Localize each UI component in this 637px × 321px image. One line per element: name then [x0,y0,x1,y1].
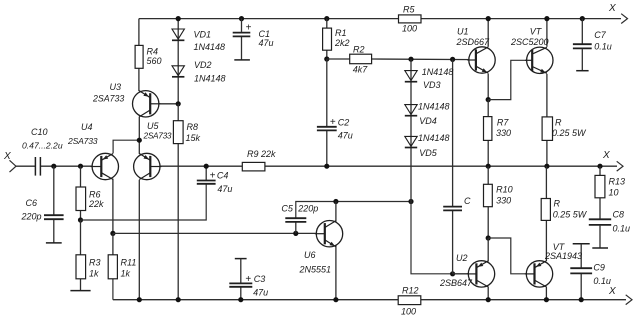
node C2 output rail junction [324,164,329,169]
node C top junction [450,57,455,62]
wire VT2 collector to rail [545,287,547,300]
svg-text:2SC5200: 2SC5200 [510,37,549,47]
node R output rail junction [544,164,549,169]
wire C9 top [580,244,582,268]
node input X chevron [3,151,16,172]
wire R11 top [112,233,114,254]
svg-text:10: 10 [609,188,619,198]
svg-text:0.1u: 0.1u [613,224,631,234]
node R6 R3 feedback junction [78,217,83,222]
node C bottom U2 base junction [450,271,455,276]
wire U6 collector up [335,202,337,222]
wire U2 emitter up [487,238,489,262]
svg-text:C2: C2 [338,117,350,127]
svg-text:47u: 47u [259,38,274,48]
resistor R6 [76,187,104,211]
wire C8 bottom [599,226,601,248]
svg-text:R1: R1 [335,28,347,38]
wire R10 to VT2 base [488,238,534,274]
svg-text:X: X [608,286,616,297]
wire U6 base line [113,232,318,234]
svg-text:2SA733: 2SA733 [67,136,98,146]
wire U3 base to bias node [150,103,178,105]
wire C1 bottom [241,37,243,60]
svg-text:U1: U1 [457,27,469,37]
svg-text:1N4148: 1N4148 [418,133,450,143]
svg-text:VD4: VD4 [419,116,437,126]
svg-text:U4: U4 [81,122,93,132]
node VD3 top junction [408,57,413,62]
ground C9 termination bar [573,243,590,245]
svg-text:2SB647: 2SB647 [439,278,473,288]
svg-text:C4: C4 [217,171,229,181]
svg-text:VD5: VD5 [419,148,438,158]
wire R1 top [326,19,328,29]
svg-text:R4: R4 [147,47,159,57]
wire R3 top [80,220,82,255]
svg-text:47u: 47u [253,288,268,298]
resistor R2 [350,45,372,75]
svg-text:R11: R11 [121,258,137,268]
svg-text:22k: 22k [88,199,104,209]
svg-text:C3: C3 [254,274,266,284]
svg-text:R: R [555,118,562,128]
svg-text:100: 100 [402,24,417,34]
svg-text:R: R [554,199,561,209]
node diff emitter junction [137,138,142,143]
svg-text:C5: C5 [281,204,293,214]
svg-text:560: 560 [147,56,162,66]
resistor R 0.25 5W lower [541,199,588,221]
svg-text:47u: 47u [217,184,232,194]
node R10 U2 emitter junction [486,235,491,240]
wire lower R bottom to VT2 emitter [545,220,547,261]
wire R4 top [138,19,140,46]
ground C3 termination bar [235,258,247,260]
transistor U4 2SA733 [67,122,119,180]
wire C4 top [205,166,207,180]
wire C2 bottom [326,131,328,166]
wire C9 bottom [580,274,582,300]
node U6 emitter rail junction [333,297,338,302]
svg-text:1N4148: 1N4148 [194,74,226,84]
resistor R12 [398,286,421,317]
resistor R10 [484,184,513,206]
node bias junction U3 base [176,101,181,106]
node VT collector rail junction [544,16,549,21]
capacitor C [443,196,471,210]
svg-text:0.1u: 0.1u [593,276,611,286]
wire C1 top [241,19,243,32]
svg-text:R9 22k: R9 22k [247,149,276,159]
wire R13 top [599,166,601,175]
capacitor C2 polarized [317,117,353,141]
wire U1 emitter to VT base [488,60,532,99]
svg-text:1k: 1k [121,269,131,279]
node top rail output arrow [608,3,628,24]
wire U5 collector to bottom rail [138,180,140,300]
wire R8 bottom to bottom rail [177,144,179,300]
transistor VT 2SA1943 [525,242,582,287]
wire input to C10 [16,165,35,167]
wire U6 emitter to rail [335,246,337,300]
resistor R 0.25 5W upper [542,117,587,140]
resistor R1 [323,28,350,50]
node C4 output rail junction [204,164,209,169]
svg-text:4k7: 4k7 [353,65,369,75]
node C9 rail junction [579,297,584,302]
wire R10 top [487,166,489,184]
wire C3 top [240,259,242,283]
node R8 bottom rail junction [176,297,181,302]
node C6 junction [51,164,56,169]
ground C8 termination bar [592,247,608,249]
svg-text:2N5551: 2N5551 [299,265,332,275]
wire R7 bottom [487,140,489,166]
node VD5 bottom junction [408,199,413,204]
capacitor C5 [281,204,318,222]
wire VD3 VD4 VD5 chain [410,59,412,201]
svg-text:C6: C6 [26,198,38,208]
wire R11 bottom to rail [112,279,114,300]
diode VD1 1N4148 [172,29,225,52]
transistor U6 2N5551 [299,221,343,275]
wire bottom supply rail [113,299,626,301]
wire VD5 bottom to U2 base corner [411,202,453,274]
svg-text:1N4148: 1N4148 [422,67,454,77]
diode VD2 1N4148 [172,60,226,84]
svg-text:15k: 15k [186,133,201,143]
svg-text:R3: R3 [89,258,101,268]
svg-text:2SA733: 2SA733 [92,94,124,104]
wire C2 top [326,59,328,126]
node U6 collector junction [333,199,338,204]
resistor R7 [484,117,512,141]
svg-text:R5: R5 [403,5,415,15]
svg-text:1k: 1k [89,269,99,279]
transistor U5 2SA733 [134,121,172,180]
node U4 collector R11 junction [110,231,115,236]
wire VT emitter down to R [546,74,548,117]
wire R bottom to output rail [546,140,548,166]
ground R3 termination bar [70,290,90,292]
svg-text:+: + [246,23,252,34]
svg-text:1N4148: 1N4148 [418,102,450,112]
svg-text:R10: R10 [496,185,513,195]
svg-text:220p: 220p [297,204,318,214]
wire R10 bottom [487,207,489,238]
node U1 collector rail junction [486,16,491,21]
ground C7 termination bar [576,70,588,72]
svg-text:C8: C8 [613,210,625,220]
wire R4 bottom to U3 emitter [138,68,140,91]
node R7 output rail junction [486,164,491,169]
wire R6 bottom [80,211,82,221]
svg-text:220p: 220p [21,212,42,222]
svg-text:X: X [3,151,11,162]
svg-text:R8: R8 [187,122,199,132]
wire U3 collector to diff pair [138,117,140,154]
wire VT collector to rail [546,19,548,47]
svg-text:0.1u: 0.1u [594,42,612,52]
svg-text:+: + [210,171,216,182]
svg-text:1N4148: 1N4148 [194,42,226,52]
transistor VT 2SC5200 [510,27,553,74]
svg-text:C9: C9 [593,263,605,273]
wire lower R top [545,166,547,198]
svg-text:0.25 5W: 0.25 5W [552,128,587,138]
svg-text:0.47...2.2u: 0.47...2.2u [22,141,63,151]
capacitor C10 [22,127,63,176]
wire R3 bottom [80,279,82,291]
capacitor C8 [589,210,630,234]
transistor U1 2SD667 [456,27,496,74]
svg-text:X: X [602,150,610,161]
wire C6 bottom [53,220,55,243]
wire R6 top [80,166,82,187]
wire C7 top [581,19,583,44]
node R6 top junction [78,164,83,169]
node U1 emitter R7 junction [486,97,491,102]
wire top supply rail [139,18,621,20]
resistor R8 [173,121,200,144]
capacitor C3 polarized [229,274,268,298]
wire output rail [150,165,617,167]
node output arrow X [602,150,623,171]
ground C1 termination bar [234,59,250,61]
wire C7 bottom [581,49,583,71]
diode VD5 1N4148 [405,133,450,158]
wire C5 top corner [296,202,411,218]
svg-text:C: C [464,196,471,206]
wire bias to R8 [177,104,179,121]
svg-text:R7: R7 [497,118,509,128]
wire bias line R2 left [327,58,350,60]
node R1 R2 C2 junction [324,56,329,61]
node C3 rail junction [238,297,243,302]
node R13 top junction [597,164,602,169]
svg-text:R13: R13 [609,177,626,187]
resistor R11 [108,255,136,279]
wire U1 collector to rail [487,19,489,47]
node bottom rail output arrow [608,286,632,305]
transistor U2 2SB647 [439,253,495,288]
svg-text:U6: U6 [304,250,316,260]
svg-text:R2: R2 [353,45,365,55]
ground C6 termination bar [46,242,62,244]
svg-text:VD1: VD1 [194,30,212,40]
svg-text:2k2: 2k2 [334,38,350,48]
svg-text:330: 330 [496,196,511,206]
svg-text:R12: R12 [402,286,419,296]
svg-text:X: X [608,3,616,14]
svg-text:C7: C7 [594,30,606,40]
capacitor C6 [21,198,64,222]
wire R7 top [487,100,489,117]
svg-text:R6: R6 [89,190,101,200]
svg-text:2SA1943: 2SA1943 [544,251,582,261]
node C5 bottom junction [293,231,298,236]
svg-text:VD3: VD3 [423,80,441,90]
node VT2 collector rail junction [544,297,549,302]
svg-text:VD2: VD2 [194,60,212,70]
wire diff pair emitter tee [113,140,139,153]
wire C6 top [53,166,55,215]
wire R13 to C8 [599,198,601,219]
node U5 collector rail junction [137,297,142,302]
wire VD1 VD2 chain [177,19,179,104]
resistor R13 [595,175,625,197]
svg-text:+: + [330,117,336,128]
wire C bottom [452,211,454,274]
wire C3 bottom [240,287,242,300]
wire C5 bottom [295,222,297,233]
svg-text:100: 100 [401,307,416,317]
svg-text:47u: 47u [338,131,353,141]
svg-text:C10: C10 [31,127,48,137]
svg-text:+: + [245,274,251,285]
svg-text:2SD667: 2SD667 [456,37,491,47]
diode VD4 1N4148 [405,102,450,127]
svg-text:330: 330 [496,128,511,138]
svg-text:U5: U5 [147,121,159,131]
resistor R4 [135,45,161,68]
wire feedback C4 line [81,184,207,220]
svg-text:U2: U2 [456,253,468,263]
transistor U3 2SA733 [92,82,160,117]
wire C top [452,59,454,206]
diode VD3 1N4148 [405,67,454,90]
svg-text:2SA733: 2SA733 [143,131,172,141]
wire R1 bottom to node [326,50,328,59]
resistor R3 [76,255,101,279]
node C1 top junction [239,16,244,21]
capacitor C9 [570,263,611,287]
wire U1 emitter down [487,73,489,99]
capacitor C1 polarized [233,23,274,49]
node U2 collector rail junction [486,297,491,302]
capacitor C4 polarized [197,171,233,195]
svg-text:0.25 5W: 0.25 5W [553,210,588,220]
node C7 top junction [580,16,585,21]
wire bias line R2 right to U1 base [372,58,476,61]
svg-text:VT: VT [530,27,543,37]
wire U4 collector down [112,179,114,234]
wire U2 base [453,273,477,275]
node VD1 top junction [176,16,181,21]
wire U2 collector to rail [487,287,489,300]
resistor R5 [399,5,422,34]
resistor R9 [242,149,276,171]
node R1 top junction [324,16,329,21]
capacitor C7 [573,30,612,52]
svg-text:U3: U3 [110,82,122,92]
wire C10 to U4 base [40,165,101,167]
